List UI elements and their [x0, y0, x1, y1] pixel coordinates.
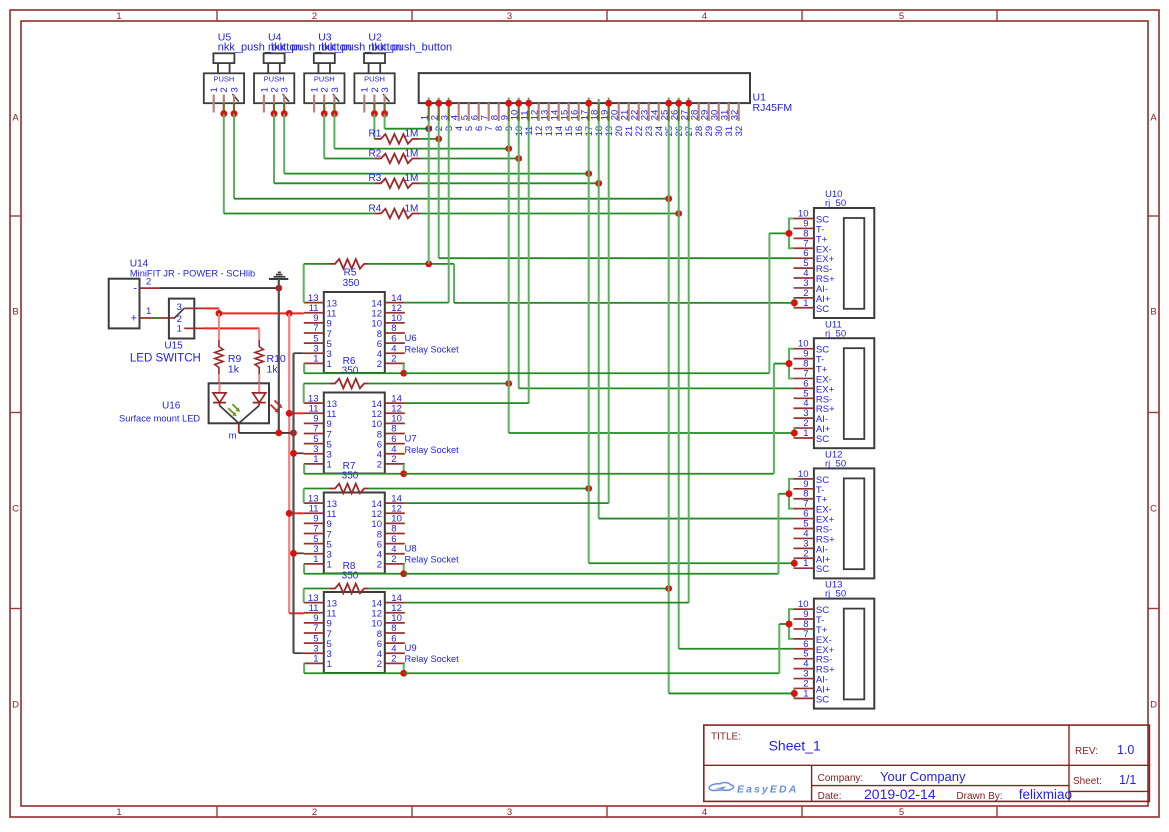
svg-text:C: C: [1150, 504, 1157, 515]
svg-text:nkk_push_button: nkk_push_button: [368, 42, 452, 54]
svg-text:A: A: [1150, 113, 1157, 124]
wire RJ45 column x=448.7 to U6 pin 14: [405, 121, 449, 303]
svg-text:3: 3: [330, 87, 341, 92]
svg-text:2: 2: [146, 276, 151, 287]
U8 left pins 13 11 9 7 5 3 1: [304, 493, 337, 570]
wire R3 right to RJ45 column: [420, 180, 602, 187]
LED emission arrows red: [271, 401, 283, 413]
push button U5 (nkk_push_button): [204, 53, 244, 103]
U11 pins 10..1 SC T- T+ EX- EX+ RS- RS+ AI- AI+ SC: [794, 339, 836, 445]
EasyEDA logo: [709, 783, 798, 796]
U2 pin 1 stub: [363, 95, 365, 113]
wire U10 pins 10-7 bracket: [786, 219, 794, 249]
title block Date field: [818, 786, 936, 802]
U7 right pins 14 12 10 8 6 4 2: [371, 393, 404, 470]
resistor R4 1M: [369, 203, 420, 218]
wire U2 pin to row y=138.9: [371, 110, 378, 139]
wire R5 left to U6 pin 13: [304, 264, 330, 303]
frame row letters left: [12, 113, 19, 711]
frame column numbers top: [116, 11, 904, 22]
wire RJ45 column x=528.7 to U7 pin 14: [405, 121, 529, 403]
U5 pin 2 stub: [223, 95, 225, 114]
svg-text:U16: U16: [162, 401, 181, 412]
svg-text:5: 5: [899, 11, 904, 22]
svg-text:R3: R3: [369, 173, 382, 184]
connector U13 rj_50 body: [814, 599, 874, 709]
svg-text:Drawn By:: Drawn By:: [956, 791, 1002, 802]
U5 pin numbers 1 2 3: [209, 87, 240, 92]
U1 reference label: [753, 92, 767, 104]
svg-text:2: 2: [391, 454, 396, 465]
connector U12 rj_50 body: [814, 468, 874, 578]
wire RJ45 column x=668.7 (net A ch4): [669, 121, 798, 697]
U14 pin 2 (-): [133, 276, 159, 294]
U12 reference label: [825, 450, 842, 461]
svg-text:SC: SC: [816, 304, 829, 315]
title block Drawn By field: [956, 787, 1072, 802]
wire U11 pins 2-1 bracket: [791, 428, 798, 438]
svg-text:350: 350: [342, 365, 359, 376]
svg-text:350: 350: [343, 278, 360, 289]
U5 pin 3 stub: [233, 95, 235, 114]
U7 reference label: [405, 434, 417, 445]
U6 left pins 13 11 9 7 5 3 1: [304, 293, 337, 370]
svg-text:Sheet:: Sheet:: [1073, 776, 1102, 787]
U4 reference label: [268, 32, 282, 44]
svg-text:1: 1: [803, 298, 808, 309]
svg-text:1M: 1M: [405, 129, 419, 140]
resistor R7 350: [330, 461, 369, 493]
U9 value label Relay Socket: [405, 654, 460, 664]
wire U3 pin to row y=158.5: [321, 110, 375, 158]
power rail to relay pins 11: [286, 313, 304, 613]
U12 value label rj_50: [825, 459, 846, 470]
svg-text:3: 3: [229, 87, 240, 92]
wire RJ45 column x=688.7 to U9 pin 14: [405, 121, 689, 603]
U9 right pins 14 12 10 8 6 4 2: [371, 593, 404, 670]
svg-text:Your Company: Your Company: [880, 769, 966, 784]
svg-text:1: 1: [327, 460, 332, 471]
U3 reference label: [318, 32, 332, 44]
U3 pin 3 stub: [333, 95, 335, 114]
connector U1 RJ45FM body: [419, 73, 750, 103]
wire RJ45 column x=508.7 (net A ch2): [509, 121, 798, 437]
svg-text:EasyEDA: EasyEDA: [737, 784, 798, 796]
U5 reference label: [218, 32, 232, 44]
push button U4 (nkk_push_button): [254, 53, 294, 103]
svg-text:1: 1: [146, 306, 151, 317]
svg-text:D: D: [12, 700, 19, 711]
U2 pin 2 stub: [373, 95, 375, 114]
U6 value label Relay Socket: [405, 345, 460, 355]
svg-text:2: 2: [391, 554, 396, 565]
svg-text:TITLE:: TITLE:: [711, 732, 741, 743]
LED D2 inside U16: [253, 383, 266, 405]
wire R6 right to RJ45 column: [368, 380, 512, 387]
U2 reference label: [368, 32, 382, 44]
svg-text:C: C: [12, 504, 19, 515]
svg-text:PUSH: PUSH: [364, 75, 385, 84]
svg-text:PUSH: PUSH: [213, 75, 234, 84]
U9 left pins 13 11 9 7 5 3 1: [304, 593, 337, 670]
svg-text:2: 2: [391, 354, 396, 365]
svg-text:2: 2: [377, 560, 382, 571]
U10 value label rj_50: [825, 198, 846, 209]
wire R4 right to RJ45 column: [420, 210, 682, 217]
U15 pin 3 line: [184, 307, 203, 309]
wire U15 pin 3 to power rail and R9: [204, 308, 304, 316]
U15 pin 1 line: [184, 327, 203, 329]
svg-text:1: 1: [116, 11, 121, 22]
svg-text:U8: U8: [405, 543, 417, 554]
push button U2 (nkk_push_button): [354, 53, 394, 103]
U16 cathode V to pin m: [220, 406, 260, 442]
wire U5 pin to row y=198.7: [231, 110, 672, 202]
U14 pin 1 (+): [131, 306, 174, 325]
wire U5 pin to row y=213.5: [220, 110, 374, 213]
wire U12 pins 10-7 bracket: [786, 479, 794, 509]
U14 value label: [130, 269, 255, 279]
svg-text:U15: U15: [164, 341, 183, 352]
U10 reference label: [825, 189, 842, 200]
svg-text:rj_50: rj_50: [825, 459, 846, 470]
title block Sheet field: [1073, 773, 1136, 787]
connector U11 rj_50 body: [814, 338, 874, 448]
wire U4 pin to row y=183.3: [271, 110, 375, 183]
connector U10 rj_50 body: [814, 208, 874, 318]
svg-text:Sheet_1: Sheet_1: [769, 738, 821, 754]
relay socket U7 body: [324, 393, 385, 474]
svg-text:1: 1: [327, 659, 332, 670]
svg-text:2: 2: [391, 654, 396, 665]
svg-text:REV:: REV:: [1075, 746, 1098, 757]
U6 reference label: [405, 333, 417, 344]
svg-text:PUSH: PUSH: [264, 75, 285, 84]
svg-text:2: 2: [377, 460, 382, 471]
svg-text:PUSH: PUSH: [314, 75, 335, 84]
U4 pin numbers 1 2 3: [259, 87, 290, 92]
svg-text:+: +: [131, 313, 137, 325]
wire RJ45 column x=438.7 to U10 EX+: [439, 121, 794, 258]
wire RJ45 column x=598.7 to U12 EX+: [599, 121, 794, 519]
U1 pin junction dots at body: [425, 98, 692, 107]
U16 reference label: [162, 401, 181, 412]
U8 right pins 14 12 10 8 6 4 2: [371, 493, 404, 570]
wire RJ45 column x=518.7 to U11 EX+: [519, 121, 794, 388]
resistor R5 350: [330, 259, 369, 289]
U14 reference label: [130, 259, 149, 270]
wire U6 pins 1,2 to U10 T bracket: [304, 230, 792, 377]
svg-text:Surface mount LED: Surface mount LED: [119, 414, 200, 424]
svg-text:1: 1: [313, 654, 318, 665]
svg-text:B: B: [12, 307, 18, 318]
U10 pins 10..1 SC T- T+ EX- EX+ RS- RS+ AI- AI+ SC: [794, 209, 836, 315]
wire U13 pins 10-7 bracket: [786, 609, 794, 639]
resistor R10 1k: [255, 334, 286, 383]
connector U14 MiniFIT JR - POWER - SCHlib body: [109, 279, 140, 329]
U3 pin numbers 1 2 3: [310, 87, 341, 92]
svg-text:1: 1: [177, 324, 182, 335]
wire RJ45 column x=678.7 to U13 EX+: [679, 121, 794, 649]
svg-text:R5: R5: [344, 268, 357, 279]
U16 value label Surface mount LED: [119, 414, 200, 424]
U15 reference label: [164, 341, 183, 352]
svg-text:R2: R2: [369, 148, 382, 159]
resistor R1 1M: [369, 129, 420, 144]
svg-text:rj_50: rj_50: [825, 589, 846, 600]
svg-text:1: 1: [803, 558, 808, 569]
svg-text:350: 350: [342, 470, 359, 481]
title block REV field: [1075, 743, 1134, 757]
svg-text:Company:: Company:: [818, 773, 864, 784]
U13 value label rj_50: [825, 589, 846, 600]
LED package U16 Surface mount LED body: [209, 383, 269, 423]
wire R8 left to U9 pin 13: [304, 589, 330, 603]
wire U15 pin 1 to R10: [204, 328, 260, 334]
svg-text:1k: 1k: [228, 364, 240, 376]
svg-text:Date:: Date:: [818, 791, 842, 802]
U5 value label nkk_push_button: [218, 42, 302, 54]
relay socket U8 body: [324, 493, 385, 574]
relay socket U6 body: [324, 292, 385, 373]
relay socket U9 body: [324, 592, 385, 673]
svg-text:1k: 1k: [267, 364, 279, 376]
U2 value label nkk_push_button: [368, 42, 452, 54]
wire R6 left to U7 pin 13: [304, 384, 330, 404]
wire RJ45 column x=588.7 (net A ch3): [589, 121, 798, 567]
svg-text:3: 3: [507, 11, 512, 22]
svg-text:1: 1: [327, 560, 332, 571]
wire U11 pins 10-7 bracket: [786, 349, 794, 379]
svg-text:Relay Socket: Relay Socket: [405, 555, 460, 565]
U1 pin 18 wire stub at body: [598, 99, 600, 103]
U13 reference label: [825, 580, 842, 591]
wire U8 pins 1,2 to U12 T bracket: [304, 490, 792, 577]
U3 value label nkk_push_button: [318, 42, 402, 54]
svg-text:A: A: [12, 113, 19, 124]
ground rail to relay pins 3: [290, 353, 304, 653]
wire RJ45 column x=608.7 to U8 pin 14: [405, 121, 609, 503]
svg-text:rj_50: rj_50: [825, 328, 846, 339]
LED D1 inside U16: [213, 383, 226, 405]
svg-text:1: 1: [313, 554, 318, 565]
LED emission arrows green: [228, 404, 240, 416]
U3 pin 2 stub: [323, 95, 325, 114]
svg-text:1M: 1M: [405, 148, 419, 159]
resistor R8 350: [330, 561, 369, 593]
wire U4 pin to row y=173.6: [281, 110, 592, 177]
svg-text:Relay Socket: Relay Socket: [405, 345, 460, 355]
wire U3 pin to row y=148.6: [331, 110, 512, 152]
title block Company field: [818, 769, 966, 784]
title block: [704, 725, 1150, 801]
U11 value label rj_50: [825, 328, 846, 339]
U15 value label LED SWITCH: [130, 353, 201, 365]
wire R1 right to RJ45 column: [420, 136, 442, 143]
wire U12 pins 2-1 bracket: [791, 558, 798, 568]
svg-text:SC: SC: [816, 564, 829, 575]
U4 pin 2 stub: [273, 95, 275, 114]
svg-text:1: 1: [116, 807, 121, 818]
switch U15 LED SWITCH body: [169, 299, 194, 339]
U1 value label RJ45FM: [753, 102, 793, 114]
resistor R3 1M: [369, 173, 420, 188]
svg-text:1/1: 1/1: [1119, 773, 1136, 787]
svg-text:32: 32: [734, 126, 745, 137]
frame column numbers bottom: [116, 807, 904, 818]
U7 value label Relay Socket: [405, 445, 460, 455]
svg-text:32: 32: [730, 110, 741, 121]
svg-text:1.0: 1.0: [1117, 743, 1134, 757]
U4 value label nkk_push_button: [268, 42, 352, 54]
svg-text:SC: SC: [816, 434, 829, 445]
wire R7 left to U8 pin 13: [304, 489, 330, 504]
svg-text:3: 3: [380, 87, 391, 92]
svg-text:350: 350: [342, 570, 359, 581]
U11 reference label: [825, 319, 842, 330]
svg-text:4: 4: [702, 11, 707, 22]
wire R8 right to RJ45 column: [368, 585, 672, 592]
svg-text:3: 3: [507, 807, 512, 818]
svg-text:1: 1: [327, 359, 332, 370]
U9 reference label: [405, 643, 417, 654]
svg-text:U9: U9: [405, 643, 417, 654]
svg-text:2: 2: [312, 807, 317, 818]
svg-text:Relay Socket: Relay Socket: [405, 445, 460, 455]
svg-text:SC: SC: [816, 694, 829, 705]
push button U3 (nkk_push_button): [304, 53, 344, 103]
U4 pin 3 stub: [283, 95, 285, 114]
U6 right pins 14 12 10 8 6 4 2: [371, 293, 404, 370]
U5 pin 1 stub: [213, 95, 215, 113]
svg-text:D: D: [1150, 700, 1157, 711]
U3 pin 1 stub: [313, 95, 315, 113]
U2 pin 3 stub: [384, 95, 386, 114]
wire U2 pin to row y=128.7: [381, 110, 432, 132]
ground symbol: [269, 272, 288, 279]
svg-text:2: 2: [377, 659, 382, 670]
svg-text:2: 2: [377, 359, 382, 370]
wire RJ45 column x=428.7 (net A ch1): [428, 121, 430, 264]
U15 pin labels 3 2 1: [177, 302, 182, 335]
wire R2 right to RJ45 column: [420, 155, 522, 162]
resistor R9 1k: [215, 313, 242, 383]
svg-text:1: 1: [313, 454, 318, 465]
svg-text:5: 5: [899, 807, 904, 818]
U13 pins 10..1 SC T- T+ EX- EX+ RS- RS+ AI- AI+ SC: [794, 599, 836, 705]
svg-text:U6: U6: [405, 333, 417, 344]
wire U9 pins 1,2 to U13 T bracket: [304, 621, 792, 677]
svg-text:m: m: [229, 431, 237, 442]
svg-text:2019-02-14: 2019-02-14: [864, 786, 936, 802]
resistor R2 1M: [369, 148, 420, 163]
svg-text:1: 1: [803, 428, 808, 439]
U1 pins 1-32 with numbers: [420, 103, 745, 136]
wire R5 right / RJ45 pin1 / U10 AI net: [368, 261, 797, 307]
wire U13 pins 2-1 bracket: [791, 688, 798, 698]
wire U14 pin 2 to ground: [160, 279, 283, 433]
svg-text:3: 3: [280, 87, 291, 92]
svg-text:-: -: [133, 283, 137, 295]
wire U10 pins 2-1 bracket: [791, 298, 798, 308]
svg-text:R1: R1: [369, 129, 382, 140]
svg-text:Relay Socket: Relay Socket: [405, 654, 460, 664]
svg-text:rj_50: rj_50: [825, 198, 846, 209]
svg-text:RJ45FM: RJ45FM: [753, 102, 793, 114]
U2 pin numbers 1 2 3: [360, 87, 391, 92]
svg-text:U7: U7: [405, 434, 417, 445]
wire m node to ground rail: [239, 430, 297, 437]
U8 reference label: [405, 543, 417, 554]
svg-text:felixmiao: felixmiao: [1019, 787, 1072, 802]
title block TITLE field: [711, 732, 821, 754]
wire U7 pins 1,2 to U11 T bracket: [304, 360, 792, 477]
svg-text:4: 4: [702, 807, 707, 818]
svg-text:2: 2: [312, 11, 317, 22]
svg-text:B: B: [1150, 307, 1156, 318]
svg-text:1: 1: [803, 688, 808, 699]
U8 value label Relay Socket: [405, 555, 460, 565]
svg-text:LED SWITCH: LED SWITCH: [130, 353, 201, 365]
svg-text:1M: 1M: [405, 173, 419, 184]
svg-text:1: 1: [313, 354, 318, 365]
wire R7 right to RJ45 column: [368, 485, 592, 492]
svg-text:R4: R4: [369, 203, 382, 214]
U7 left pins 13 11 9 7 5 3 1: [304, 393, 337, 470]
U12 pins 10..1 SC T- T+ EX- EX+ RS- RS+ AI- AI+ SC: [794, 469, 836, 575]
frame row letters right: [1150, 113, 1157, 711]
svg-text:1M: 1M: [405, 203, 419, 214]
svg-text:3: 3: [177, 302, 182, 313]
U4 pin 1 stub: [263, 95, 265, 113]
resistor R6 350: [330, 356, 369, 388]
